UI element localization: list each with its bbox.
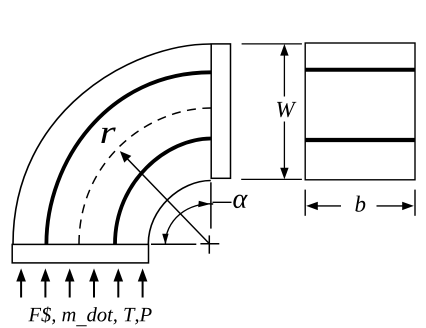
inlet flow arrow 4 <box>89 268 99 297</box>
alpha label <box>233 195 247 209</box>
inlet flow arrow 1 <box>16 268 26 297</box>
outer wall arc <box>13 44 211 244</box>
inlet flow arrow 6 <box>138 268 148 297</box>
inlet flow arrow 3 <box>65 268 75 297</box>
W dimension line lower segment <box>283 122 285 174</box>
inner turning vane arc <box>115 139 211 245</box>
r label <box>101 128 116 144</box>
outer turning vane arc <box>46 72 210 244</box>
angle arc lower arrowhead <box>162 234 168 245</box>
W dimension top arrowhead <box>280 44 288 56</box>
W label <box>277 102 296 117</box>
b right arrow <box>377 202 414 210</box>
b label <box>355 196 365 212</box>
center cross <box>200 235 219 253</box>
W dimension bottom arrowhead <box>280 168 288 180</box>
W dimension bottom extension line <box>241 178 302 180</box>
angle extension line <box>210 182 212 228</box>
b left arrow <box>306 202 341 210</box>
inlet flow arrow 2 <box>41 268 51 297</box>
alpha leader line <box>213 201 232 203</box>
angle dimension arc <box>165 204 213 244</box>
inlet condition label <box>28 307 151 327</box>
r radius arrow <box>120 151 209 244</box>
cross-section rect <box>305 43 415 180</box>
centerline dashed arc <box>79 108 211 244</box>
angle arc upper arrowhead <box>198 201 210 207</box>
cross-section vane line 1 <box>305 68 415 72</box>
inlet flange rect <box>12 244 148 263</box>
inner wall arc <box>148 181 211 245</box>
b left extension line <box>304 190 306 216</box>
cross-section vane line 2 <box>305 138 415 142</box>
angle datum line <box>151 243 196 245</box>
b right extension line <box>414 190 416 216</box>
inlet flow arrow 5 <box>114 268 124 297</box>
W dimension line upper segment <box>283 50 285 97</box>
outlet flange rect <box>211 44 230 178</box>
W dimension top extension line <box>242 43 302 45</box>
